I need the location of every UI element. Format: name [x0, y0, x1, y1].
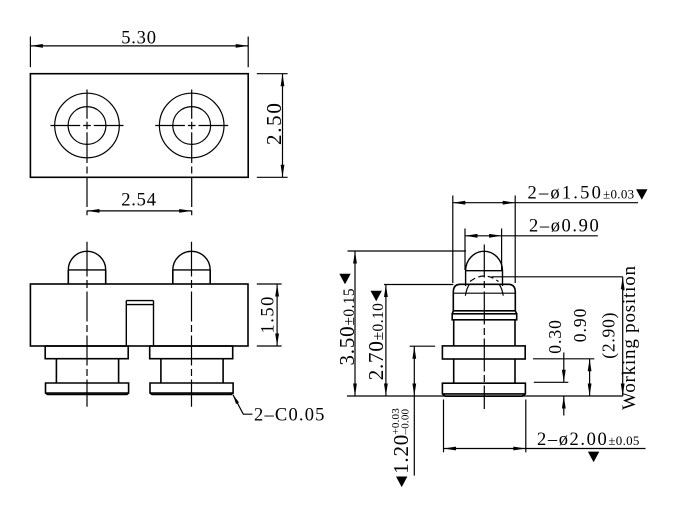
svg-text:2–C0.05: 2–C0.05 — [254, 406, 326, 426]
svg-text:2–ø2.00±0.05: 2–ø2.00±0.05 — [537, 430, 640, 450]
svg-text:2–ø1.50±0.03: 2–ø1.50±0.03 — [528, 184, 635, 204]
svg-text:(2.90): (2.90) — [599, 312, 619, 359]
svg-text:5.30: 5.30 — [121, 29, 157, 49]
svg-text:1.50: 1.50 — [258, 295, 278, 333]
svg-text:0.30: 0.30 — [545, 319, 565, 354]
svg-text:2.50: 2.50 — [262, 101, 286, 145]
svg-text:–0.00: –0.00 — [400, 408, 412, 435]
svg-text:2–ø0.90: 2–ø0.90 — [529, 217, 600, 237]
svg-text:0.90: 0.90 — [570, 308, 590, 343]
svg-text:2.54: 2.54 — [121, 191, 157, 211]
svg-text:Working position: Working position — [619, 265, 640, 410]
svg-text:1.20: 1.20 — [389, 434, 413, 474]
